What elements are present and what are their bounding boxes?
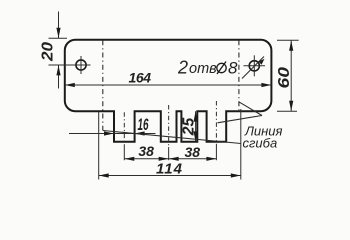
- svg-text:сгиба: сгиба: [243, 136, 278, 151]
- dim 60: extension lines: [277, 39, 299, 41]
- dim 16: dimension line + outside arrows: [69, 133, 156, 135]
- svg-text:отв.: отв.: [189, 61, 221, 77]
- tab 4 centerline: [215, 101, 217, 147]
- dim 164: dimension line + arrows: [65, 84, 272, 86]
- hole callout leader through right hole: [242, 57, 264, 79]
- tab 2 centerline: [168, 105, 170, 147]
- dim 60: dimension line + arrows: [290, 40, 292, 111]
- svg-text:20: 20: [40, 42, 57, 62]
- bend line right (dash-dot): [238, 40, 240, 110]
- svg-text:114: 114: [156, 161, 183, 178]
- dim 25: dimension line + arrows: [195, 111, 197, 142]
- svg-text:60: 60: [276, 67, 293, 89]
- svg-text:38: 38: [138, 143, 154, 159]
- right hole: [249, 61, 259, 71]
- svg-text:38: 38: [185, 144, 201, 160]
- plate outline with four bottom tabs (flat pattern): [65, 40, 272, 142]
- bend line left (dash-dot): [102, 40, 104, 130]
- tab 1 centerline: [123, 112, 125, 147]
- diameter symbol: [217, 63, 226, 72]
- dim 20: extension lines: [49, 37, 68, 39]
- svg-text:8: 8: [228, 58, 238, 77]
- leader: линия сгиба (three branches): [239, 102, 262, 116]
- dim 114: dimension line + arrows: [99, 175, 241, 177]
- dim 114: extension lines: [98, 112, 100, 180]
- svg-text:2: 2: [177, 58, 188, 78]
- svg-text:25: 25: [180, 117, 197, 137]
- svg-text:16: 16: [138, 116, 149, 134]
- dim 38 + 38: dimension line + arrows: [124, 158, 216, 160]
- dim 20: dimension line + arrows: [58, 12, 60, 39]
- svg-text:164: 164: [129, 69, 152, 85]
- left hole: [76, 60, 86, 70]
